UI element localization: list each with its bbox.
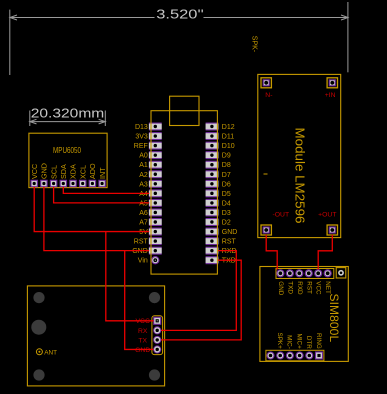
svg-text:GND: GND (135, 347, 150, 354)
svg-text:RXD: RXD (222, 248, 237, 255)
pin D7 of A1 (right column) (206, 170, 231, 179)
mounting hole H1 (33, 292, 44, 303)
svg-text:ADO: ADO (88, 163, 97, 179)
pin D4 of A1 (right column) (206, 199, 231, 208)
pin VCC of U3 SIM800L (top row) (315, 270, 322, 295)
pin RX of J1 (138, 327, 161, 335)
pin RST of A1 (left column) (134, 237, 162, 246)
pin D2 of A1 (right column) (206, 218, 231, 227)
pad +IN of U2 LM2596 (325, 78, 338, 99)
pad IN- of U2 LM2596 (261, 78, 272, 99)
svg-text:INT: INT (98, 167, 107, 179)
svg-text:RING: RING (315, 333, 322, 349)
svg-text:NET: NET (324, 281, 331, 294)
svg-text:+IN: +IN (325, 92, 336, 99)
pin RXD of U3 SIM800L (top row) (296, 270, 303, 295)
pin D12 of A1 (right column) (206, 123, 235, 132)
pin VCC of J1 (136, 317, 161, 325)
pin 5 XDA of U1 MPU6050 (69, 164, 78, 187)
pin A1 of A1 (left column) (139, 161, 161, 170)
svg-text:A5: A5 (139, 200, 148, 207)
svg-text:D2: D2 (222, 220, 231, 227)
pin 2 GND of U1 MPU6050 (40, 163, 49, 187)
wire +OUT(U2) to VCC(U3) (318, 235, 332, 270)
svg-text:D9: D9 (222, 153, 231, 160)
pin GND of A1 (right column) (206, 228, 238, 237)
polarity mark on U2 (264, 173, 268, 175)
pin D11 of A1 (right column) (206, 132, 235, 141)
pin SPK+ of U3 SIM800L (bottom row) (276, 333, 284, 359)
pin A3 of A1 (left column) (139, 180, 161, 189)
svg-text:MIC-: MIC- (286, 335, 293, 349)
svg-text:MIC+: MIC+ (295, 334, 302, 350)
pin D3 of A1 (right column) (206, 208, 231, 217)
connector J3 bottom row outline of U3 (266, 350, 324, 361)
pin RXD of A1 (right column) (206, 247, 237, 256)
svg-text:D13: D13 (135, 124, 148, 131)
wire SDA(MPU) to A4(Nano) (63, 187, 149, 194)
USB connector outline of A1 (170, 96, 199, 125)
svg-text:RXD: RXD (296, 281, 303, 295)
antenna pad of U3 SIM800L (336, 268, 346, 278)
svg-text:D5: D5 (222, 191, 231, 198)
svg-text:ANT: ANT (44, 350, 57, 357)
svg-text:A2: A2 (139, 172, 148, 179)
svg-text:A6: A6 (139, 210, 148, 217)
dimension D1 3.520in extension line left (9, 10, 11, 75)
wire GND branch to GND(J1) (125, 251, 154, 350)
pin A5 of A1 (left column) (139, 199, 161, 208)
svg-text:SIM800L: SIM800L (327, 294, 341, 343)
pin 3 SCL of U1 MPU6050 (49, 165, 58, 187)
svg-text:+OUT: +OUT (318, 211, 336, 218)
svg-text:D4: D4 (222, 200, 231, 207)
dimension D2 20.320mm line with arrows (30, 119, 106, 124)
module A1 Arduino Nano board outline (151, 111, 217, 274)
module ANT board outline (27, 286, 164, 386)
svg-text:3.520'': 3.520'' (156, 7, 204, 21)
pin REF of A1 (left column) (134, 142, 162, 151)
svg-text:D3: D3 (222, 210, 231, 217)
pin D8 of A1 (right column) (206, 161, 231, 170)
mounting hole H4 (149, 369, 160, 380)
wire GND(MPU) to GND(Nano) (44, 187, 149, 251)
svg-text:SDA: SDA (59, 164, 68, 179)
mounting hole H2 (149, 292, 160, 303)
module U3 SIM800L outline (260, 267, 348, 362)
svg-text:RX: RX (138, 328, 148, 335)
svg-text:D7: D7 (222, 172, 231, 179)
svg-text:VCC: VCC (30, 164, 39, 179)
pin A0 of A1 (left column) (139, 151, 161, 160)
svg-text:Vin: Vin (138, 258, 148, 265)
svg-text:VCC: VCC (136, 318, 150, 325)
wire RXD(Nano) to RX(J1) (161, 251, 236, 331)
pin TXD of A1 (right column) (206, 256, 236, 265)
pad -OUT of U2 LM2596 (261, 211, 289, 235)
svg-text:XCL: XCL (78, 165, 87, 179)
svg-text:MPU6050: MPU6050 (53, 146, 81, 155)
antenna symbol ANT (36, 349, 57, 357)
module U2 LM2596 outline (258, 74, 341, 237)
module U1 MPU6050 outline (29, 133, 107, 187)
pin GND of A1 (left column) (132, 247, 161, 256)
pin RST of U3 SIM800L (top row) (305, 270, 312, 294)
pin RST of A1 (right column) (206, 237, 237, 246)
svg-text:D12: D12 (222, 124, 235, 131)
svg-text:SPK+: SPK+ (276, 333, 283, 350)
pad +OUT of U2 LM2596 (318, 211, 337, 235)
pin D13 of A1 (left column) (135, 123, 162, 132)
svg-text:3V3: 3V3 (135, 134, 148, 141)
dimension D1 3.520in extension line right (347, 2, 349, 72)
wire SCL(MPU) to A5(Nano) (54, 187, 150, 203)
svg-text:REF: REF (134, 143, 148, 150)
svg-text:A0: A0 (139, 153, 148, 160)
svg-text:SPK-: SPK- (250, 36, 257, 53)
svg-text:SCL: SCL (49, 165, 58, 179)
pin Vin of A1 (left column) (138, 257, 159, 265)
pin 3V3 of A1 (left column) (135, 132, 161, 141)
svg-text:-OUT: -OUT (273, 211, 290, 218)
pin 8 INT of U1 MPU6050 (98, 167, 107, 187)
pin RING of U3 SIM800L (bottom row) (315, 333, 323, 359)
pin SPK- of U3 SIM800L (bottom row) (267, 352, 274, 359)
svg-text:A1: A1 (139, 162, 148, 169)
pin DTR of U3 SIM800L (bottom row) (305, 336, 313, 359)
svg-text:A4: A4 (139, 191, 148, 198)
svg-text:D6: D6 (222, 181, 231, 188)
pin A6 of A1 (left column) (139, 208, 161, 217)
svg-text:TX: TX (138, 337, 147, 344)
pin D10 of A1 (right column) (206, 142, 235, 151)
svg-text:A7: A7 (139, 220, 148, 227)
connector J2 top row outline of U3 (276, 269, 334, 279)
svg-text:VCC: VCC (315, 281, 322, 295)
svg-text:D8: D8 (222, 162, 231, 169)
pin 6 XCL of U1 MPU6050 (78, 165, 87, 187)
svg-text:D10: D10 (222, 143, 235, 150)
wire TXD(Nano) to TX(J1) (161, 260, 241, 340)
pin D5 of A1 (right column) (206, 189, 231, 198)
svg-text:5V: 5V (139, 229, 148, 236)
pin D9 of A1 (right column) (206, 151, 231, 160)
svg-text:GND: GND (132, 248, 148, 255)
svg-text:GND: GND (222, 229, 238, 236)
svg-text:RST: RST (222, 239, 237, 246)
svg-text:RST: RST (305, 281, 312, 294)
pin TX of J1 (138, 336, 160, 344)
pin D6 of A1 (right column) (206, 180, 231, 189)
pin GND of J1 (135, 346, 161, 354)
pin GND of U3 SIM800L (top row) (277, 270, 284, 296)
svg-text:N-: N- (265, 92, 272, 99)
pin 7 ADO of U1 MPU6050 (88, 163, 97, 187)
svg-text:XDA: XDA (69, 164, 78, 179)
wire 5V branch to VCC(J1) (106, 232, 154, 321)
wire VCC(MPU) to 5V(Nano) (34, 187, 149, 232)
pin MIC+ of U3 SIM800L (bottom row) (295, 334, 303, 359)
pin 1 VCC of U1 MPU6050 (30, 164, 39, 187)
pin A2 of A1 (left column) (139, 170, 161, 179)
svg-text:GND: GND (40, 163, 49, 179)
pin NET of U3 SIM800L (top row) (324, 270, 331, 294)
pin TXD of U3 SIM800L (top row) (286, 270, 293, 295)
pin 4 SDA of U1 MPU6050 (59, 164, 68, 187)
pin 5V of A1 (left column) (139, 228, 161, 237)
svg-text:TXD: TXD (286, 281, 293, 294)
mounting hole H3 (33, 369, 44, 380)
svg-text:20.320mm: 20.320mm (31, 107, 105, 121)
pin A7 of A1 (left column) (139, 218, 161, 227)
pin A4 of A1 (left column) (139, 189, 161, 198)
svg-text:GND: GND (277, 281, 284, 295)
svg-text:A3: A3 (139, 181, 148, 188)
svg-text:TXD: TXD (222, 258, 236, 265)
dimension D1 3.520in line with arrows (10, 15, 348, 20)
svg-text:DTR: DTR (305, 336, 312, 349)
dimension D2 20.320mm ticks (30, 111, 106, 127)
svg-text:RST: RST (134, 239, 149, 246)
mounting hole H5 (31, 320, 46, 335)
wire -OUT(U2) to GND(U3) (266, 235, 277, 270)
connector J1 outline (152, 316, 163, 355)
svg-text:D11: D11 (222, 134, 234, 141)
pin MIC- of U3 SIM800L (bottom row) (286, 335, 294, 359)
svg-text:Module LM2596: Module LM2596 (293, 128, 307, 224)
